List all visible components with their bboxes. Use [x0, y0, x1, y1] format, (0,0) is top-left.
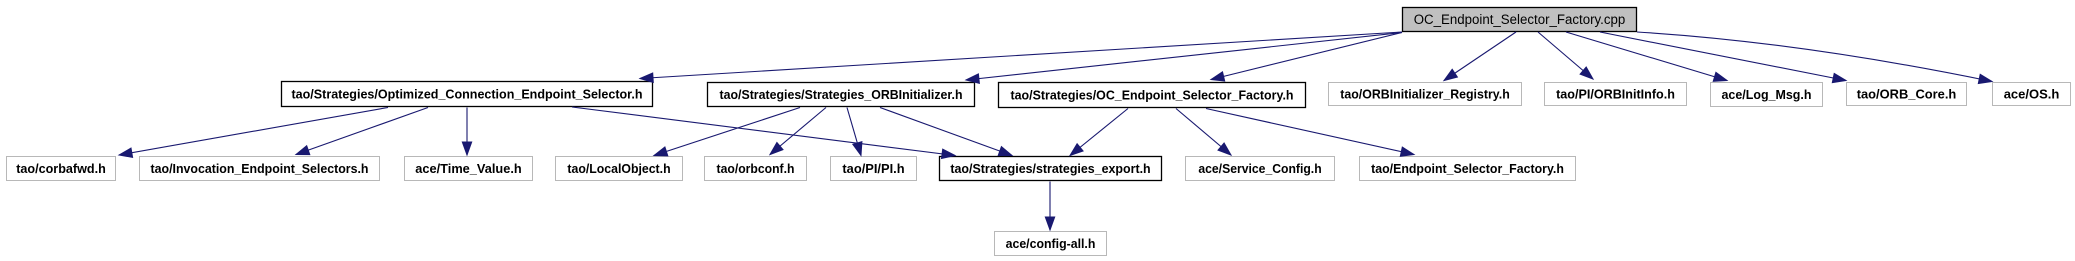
edge ocesf->esf [1206, 109, 1414, 157]
node tao/ORBInitializer_Registry.h [1329, 83, 1522, 106]
svg-text:tao/PI/ORBInitInfo.h: tao/PI/ORBInitInfo.h [1556, 87, 1675, 102]
node ace/Service_Config.h [1186, 157, 1335, 181]
svg-text:ace/OS.h: ace/OS.h [2004, 87, 2060, 102]
node OC_Endpoint_Selector_Factory.cpp [1403, 8, 1637, 32]
svg-text:tao/ORB_Core.h: tao/ORB_Core.h [1857, 87, 1957, 102]
node tao/ORB_Core.h [1847, 83, 1967, 106]
edge cpp->registry [1444, 32, 1516, 81]
svg-text:tao/Strategies/strategies_expo: tao/Strategies/strategies_export.h [950, 161, 1150, 176]
node tao/PI/PI.h [831, 157, 917, 181]
svg-text:tao/corbafwd.h: tao/corbafwd.h [16, 161, 106, 176]
edge cpp->opt [640, 32, 1402, 82]
edge opt->stratexp [572, 107, 955, 159]
svg-text:tao/ORBInitializer_Registry.h: tao/ORBInitializer_Registry.h [1340, 87, 1510, 102]
edge orbinit->stratexp [880, 108, 1012, 156]
edge orbinit->localobject [654, 108, 800, 156]
svg-text:tao/Invocation_Endpoint_Select: tao/Invocation_Endpoint_Selectors.h [151, 161, 369, 176]
svg-text:ace/config-all.h: ace/config-all.h [1006, 236, 1096, 251]
edge ocesf->stratexp [1070, 109, 1128, 156]
node ace/OS.h [1993, 83, 2071, 106]
edge cpp->ocesf [1211, 33, 1402, 82]
node tao/Endpoint_Selector_Factory.h [1360, 157, 1576, 181]
node tao/corbafwd.h [7, 157, 116, 181]
edge cpp->os [1637, 32, 1992, 84]
node ace/Log_Msg.h [1711, 83, 1823, 107]
svg-text:tao/Strategies/Strategies_ORBI: tao/Strategies/Strategies_ORBInitializer… [720, 87, 963, 102]
edge orbinit->pi [847, 108, 862, 156]
node tao/PI/ORBInitInfo.h [1545, 83, 1687, 106]
node tao/Strategies/Strategies_ORBInitializer.h [708, 83, 975, 107]
node tao/Strategies/Optimized_Connection_Endpoint_Selector.h [282, 82, 653, 107]
node tao/Strategies/strategies_export.h [940, 157, 1162, 181]
svg-text:tao/Strategies/Optimized_Conne: tao/Strategies/Optimized_Connection_Endp… [292, 87, 643, 102]
edge cpp->orbcore [1600, 32, 1846, 83]
svg-text:ace/Time_Value.h: ace/Time_Value.h [415, 161, 521, 176]
node ace/Time_Value.h [405, 157, 533, 181]
svg-text:ace/Service_Config.h: ace/Service_Config.h [1198, 161, 1321, 176]
edge opt->invocation [296, 108, 428, 155]
node tao/Invocation_Endpoint_Selectors.h [140, 157, 380, 181]
svg-text:tao/PI/PI.h: tao/PI/PI.h [842, 161, 904, 176]
node tao/LocalObject.h [556, 157, 683, 181]
edge opt->timevalue [462, 108, 471, 156]
edge stratexp->configall [1045, 182, 1054, 231]
edge cpp->logmsg [1566, 32, 1727, 81]
svg-text:tao/orbconf.h: tao/orbconf.h [717, 161, 795, 176]
edge opt->corbafwd [119, 108, 388, 158]
svg-text:tao/LocalObject.h: tao/LocalObject.h [567, 161, 670, 176]
node tao/orbconf.h [705, 157, 807, 181]
node tao/Strategies/OC_Endpoint_Selector_Factory.h [999, 83, 1306, 108]
svg-text:ace/Log_Msg.h: ace/Log_Msg.h [1722, 87, 1812, 102]
svg-text:tao/Strategies/OC_Endpoint_Sel: tao/Strategies/OC_Endpoint_Selector_Fact… [1011, 88, 1294, 103]
edge ocesf->svcconf [1176, 109, 1231, 156]
edge cpp->orbinit [966, 33, 1402, 84]
edge cpp->orbinitinfo [1538, 32, 1593, 79]
svg-text:OC_Endpoint_Selector_Factory.c: OC_Endpoint_Selector_Factory.cpp [1414, 12, 1626, 27]
edge orbinit->orbconf [770, 108, 826, 155]
svg-text:tao/Endpoint_Selector_Factory.: tao/Endpoint_Selector_Factory.h [1371, 161, 1564, 176]
node ace/config-all.h [995, 232, 1107, 256]
